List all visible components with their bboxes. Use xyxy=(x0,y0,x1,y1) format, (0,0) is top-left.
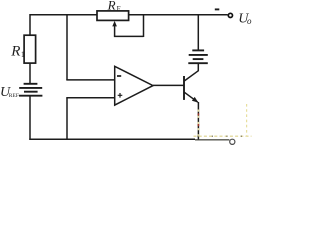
battery right plate short 2 xyxy=(193,58,204,60)
wire battery right to top rail xyxy=(197,15,199,51)
selection dash bottom marquee edge pale xyxy=(194,135,252,137)
potentiometer wiper arrow xyxy=(112,21,117,27)
transistor Q1 base bar xyxy=(183,76,185,100)
svg-text:o: o xyxy=(247,16,252,26)
wire wiper return up to top rail xyxy=(143,15,145,37)
wire wiper vertical xyxy=(114,26,116,37)
battery UREF plate long 1 xyxy=(19,87,42,89)
transistor collector diagonal xyxy=(184,71,198,81)
wire top rail right part xyxy=(129,14,228,16)
potentiometer RF body xyxy=(97,11,129,21)
battery UREF plate long 2 xyxy=(19,95,42,97)
wire bottom rail selected segment xyxy=(195,139,229,141)
svg-text:REF: REF xyxy=(9,93,19,99)
svg-text:F: F xyxy=(117,5,121,13)
wire to non-inverting input xyxy=(66,97,114,99)
selection dash vertical on emitter wire xyxy=(197,110,199,140)
transistor emitter diagonal xyxy=(184,92,197,102)
wire left drop to R1 xyxy=(29,14,31,35)
op-amp plus sign xyxy=(118,93,123,98)
resistor R1 body xyxy=(24,35,35,63)
minus polarity mark at output xyxy=(215,8,220,10)
svg-text:1: 1 xyxy=(21,50,25,59)
wire op-amp output to base xyxy=(153,84,184,86)
battery right plate long 2 xyxy=(188,62,208,64)
wire feedback drop (top rail to inverting input) xyxy=(66,14,68,80)
op-amp minus sign xyxy=(117,75,121,77)
wire non-inverting drop to bottom rail xyxy=(66,98,68,140)
wire battery to bottom rail xyxy=(29,97,31,140)
wire R1 to battery xyxy=(29,63,31,83)
wire top rail left part xyxy=(30,14,97,16)
wire collector to battery xyxy=(197,63,199,71)
op-amp U1 triangle xyxy=(115,66,153,105)
battery right plate long 1 xyxy=(189,54,208,56)
wire bottom rail xyxy=(29,138,195,140)
selection dark dashes on marquee edge xyxy=(197,135,251,137)
selection dash right marquee edge xyxy=(246,104,248,137)
wire to inverting input xyxy=(66,79,114,81)
selection red speck 2 xyxy=(198,124,200,126)
battery UREF plate short 1 xyxy=(24,83,38,85)
wire wiper horizontal xyxy=(114,35,144,37)
battery right plate short 1 xyxy=(192,49,204,51)
transistor emitter arrowhead xyxy=(192,97,199,103)
battery UREF plate short 2 xyxy=(24,91,38,93)
selection red speck 1 xyxy=(198,113,200,115)
svg-text:R: R xyxy=(10,43,20,59)
terminal bottom right circle xyxy=(230,139,235,144)
terminal UO top circle xyxy=(228,13,232,17)
wire emitter down xyxy=(197,102,199,140)
svg-text:R: R xyxy=(107,0,116,12)
